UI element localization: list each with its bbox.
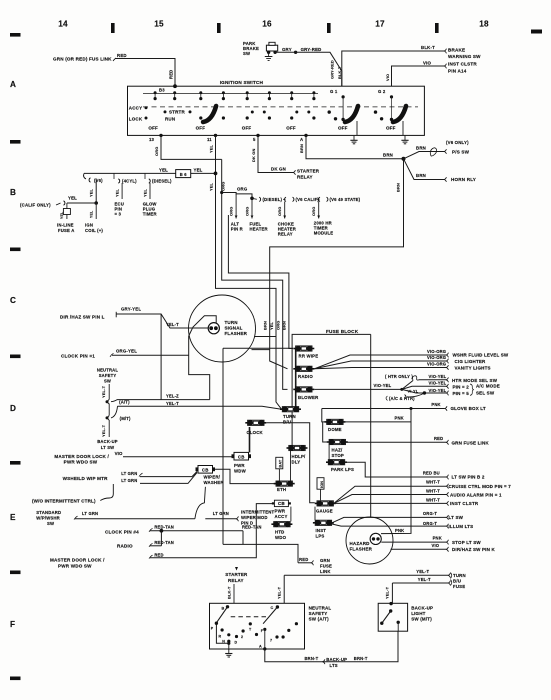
svg-text:OFF: OFF (338, 125, 348, 130)
wire YEL-T down to back-up light sw (391, 583, 393, 603)
svg-text:B/U: B/U (453, 579, 461, 584)
svg-text:INTERMITTENT: INTERMITTENT (241, 510, 275, 515)
svg-text:ORG: ORG (277, 207, 282, 216)
svg-text:C: C (271, 606, 274, 610)
connector pair (V6 49 STATE) (317, 198, 320, 200)
wire ORG branch to diesel connector row (222, 193, 252, 199)
wire ORG from terminal 13 (161, 135, 222, 159)
circuit breaker WIPER/WASHER (198, 466, 213, 474)
svg-text:PNK: PNK (395, 415, 404, 420)
brace pin group (470, 384, 474, 395)
ground below ignition section 6 (404, 136, 406, 141)
svg-text:FUSE: FUSE (320, 564, 332, 569)
svg-text:2: 2 (241, 635, 243, 639)
svg-text:7: 7 (270, 639, 272, 643)
svg-text:HEATER: HEATER (250, 227, 268, 232)
svg-text:GRY: GRY (282, 47, 292, 52)
ignition switch section 2 contacts (199, 91, 202, 94)
svg-text:YEL-T: YEL-T (166, 401, 179, 406)
svg-text:HTD: HTD (275, 529, 284, 534)
wire link turn flasher to bundle lower (252, 349, 270, 351)
hazard flasher element (370, 533, 381, 544)
wire YEL to ECU pin 3 (121, 183, 123, 199)
svg-text:HAZARD: HAZARD (350, 541, 371, 546)
ignition switch section 2 lever (203, 106, 216, 122)
ignition switch section 5 lever (345, 106, 358, 122)
wire VI-YL branch a/c and htr (407, 393, 425, 397)
circuit breaker PWR ACCY (272, 500, 291, 506)
svg-text:YEL: YEL (90, 210, 94, 218)
node blower fan-out (400, 388, 403, 391)
svg-text:ORG: ORG (237, 187, 248, 192)
svg-text:DIR /HAZ SW PIN L: DIR /HAZ SW PIN L (60, 315, 105, 320)
wire branch down from dir/haz line (160, 314, 162, 400)
svg-text:STANDARD: STANDARD (36, 510, 61, 515)
ruler side dashes left (10, 33, 21, 37)
svg-text:RELAY: RELAY (297, 175, 313, 180)
wire link turn flasher to bundle upper (254, 336, 276, 338)
svg-text:VIO-YEL: VIO-YEL (429, 388, 447, 393)
svg-text:PNK: PNK (433, 536, 442, 541)
svg-text:PARK LPS: PARK LPS (331, 467, 354, 472)
wire ORG to choke heater relay (284, 202, 286, 219)
svg-text:18: 18 (479, 20, 489, 29)
wire lever foot section 6 (402, 121, 404, 135)
svg-text:ACCY: ACCY (275, 514, 288, 519)
svg-text:IN-LINE: IN-LINE (57, 223, 74, 228)
in-line fuse A component (66, 203, 68, 209)
svg-text:ORG-YEL: ORG-YEL (116, 349, 137, 354)
wire BRN to horn relay (404, 159, 445, 180)
node pnk junction (410, 407, 413, 410)
connector (V6) on B6 row (84, 173, 86, 179)
neutral safety internal contacts (221, 628, 224, 631)
svg-text:VIO: VIO (432, 543, 440, 548)
svg-text:VIO: VIO (423, 61, 431, 66)
svg-text:LT GRN: LT GRN (213, 511, 229, 516)
wire VIO-ORG outputs from RADIO fuse (314, 355, 446, 369)
svg-text:IGNITION SWITCH: IGNITION SWITCH (220, 80, 264, 85)
neutral safety dashed line (231, 616, 268, 618)
svg-text:STOP: STOP (332, 453, 344, 458)
wire M/T line YEL-T to turn b/u fuse (111, 406, 118, 418)
wire squiggle w/o intermittent (100, 484, 113, 501)
svg-text:PWR: PWR (234, 463, 245, 468)
node fuel heater branch (250, 197, 254, 201)
back-up switch contacts and lever (389, 602, 392, 605)
svg-text:INST CLSTR: INST CLSTR (448, 62, 477, 67)
wire BRN third vertical to fuse block (228, 215, 289, 344)
svg-text:17: 17 (375, 20, 385, 29)
ignition switch dashed line (143, 106, 418, 108)
back-up light switch box (378, 603, 407, 631)
wire BRN bundle4 to RR WIPE fuse (289, 344, 293, 349)
wire YEL-T down to neutral safety C (283, 575, 285, 603)
svg-text:VANITY LIGHTS: VANITY LIGHTS (455, 366, 491, 371)
svg-text:WDO: WDO (275, 535, 287, 540)
svg-text:BLK-T: BLK-T (421, 45, 435, 50)
svg-text:ILLUM LTS: ILLUM LTS (449, 524, 474, 529)
connector (CALIF ONLY) (64, 201, 65, 205)
wire VIO-YEL sel sw pin 5 (402, 389, 446, 393)
wire A/T line YEL-T (111, 400, 117, 402)
wire CLOCK right to GAUGE feed (266, 423, 314, 503)
svg-text:MASTER DOOR LOCK /: MASTER DOOR LOCK / (50, 558, 105, 563)
svg-text:NEUTRAL: NEUTRAL (309, 606, 332, 611)
svg-text:15: 15 (154, 20, 164, 29)
fuse HDLP/DLY (287, 445, 308, 451)
wire VIO hazard to dir/haz sw pin k (391, 548, 447, 550)
svg-text:YEL-T: YEL-T (101, 385, 106, 398)
ignition switch section 4 contacts (290, 91, 293, 94)
svg-text:BRN-T: BRN-T (354, 656, 368, 661)
wire BLK-T to brake warning switch (342, 51, 444, 86)
wire YEL-T neutral safety to A/T connector (108, 384, 110, 400)
svg-text:GRY-RED: GRY-RED (330, 60, 335, 79)
svg-text:ETH: ETH (277, 487, 286, 492)
fuse BLOWER (293, 387, 314, 393)
ground below ignition section 5 (353, 136, 355, 141)
wire dome right to pnk junction (344, 409, 412, 422)
wire HDLP/DLY to ETH link (290, 451, 292, 481)
svg-text:LT SW PIN B 2: LT SW PIN B 2 (452, 475, 485, 480)
svg-text:YEL: YEL (60, 211, 64, 219)
ignition switch section 3 contacts (246, 91, 249, 94)
ground below neutral safety sw (228, 643, 230, 650)
svg-text:(V6 49 STATE): (V6 49 STATE) (330, 197, 361, 202)
svg-text:YEL-T: YEL-T (101, 424, 106, 437)
svg-text:LT SW: LT SW (449, 515, 464, 520)
svg-text:P/S SW: P/S SW (452, 150, 470, 155)
svg-text:ORG: ORG (221, 182, 226, 191)
svg-text:VIO-ORG: VIO-ORG (427, 349, 446, 354)
svg-text:BACK-UP: BACK-UP (97, 439, 118, 444)
wire PNK dome to glove box lt (322, 408, 445, 410)
svg-text:13: 13 (149, 137, 155, 142)
svg-text:ORG-T: ORG-T (423, 511, 438, 516)
svg-text:RED-TAN: RED-TAN (154, 525, 174, 530)
ignition switch section 5 contacts (342, 97, 344, 120)
svg-text:(DIESEL): (DIESEL) (263, 197, 283, 202)
svg-text:MODULE: MODULE (314, 231, 334, 236)
wire ORG bundle3 to BLOWER fuse (283, 344, 288, 389)
wire YEL from V6 connector down to coil junction (95, 179, 97, 204)
svg-text:VIO: VIO (115, 451, 123, 456)
svg-text:ORG: ORG (311, 207, 316, 216)
svg-text:WIPER/: WIPER/ (204, 475, 221, 480)
connector (4CYL) on B6 row (113, 173, 115, 179)
svg-text:CLOCK: CLOCK (247, 430, 264, 435)
svg-text:FLASHER: FLASHER (225, 331, 248, 336)
svg-text:RADIO: RADIO (298, 374, 313, 379)
wire from B lever to ground (216, 623, 228, 644)
svg-text:A/C MODE: A/C MODE (476, 384, 500, 389)
ruler ticks top (111, 23, 115, 33)
svg-text:BACK-UP: BACK-UP (411, 606, 433, 611)
svg-text:VIO-YEL: VIO-YEL (429, 374, 447, 379)
circuit breaker PWR WDW (234, 452, 249, 460)
svg-text:CRUISE CTRL MOD PIN = 7: CRUISE CTRL MOD PIN = 7 (449, 484, 512, 489)
fuse CLOCK (245, 420, 266, 426)
wire PNK hazard to stop lt sw (381, 541, 446, 543)
svg-text:RED: RED (434, 436, 443, 441)
wire YEL to CALIF ONLY connector (67, 202, 96, 204)
wire back-up switch output to bottom edge (397, 622, 399, 631)
svg-text:SAFETY: SAFETY (99, 373, 117, 378)
label box IGN (317, 478, 324, 490)
svg-text:SW (M/T): SW (M/T) (411, 617, 432, 622)
svg-text:PWR: PWR (275, 508, 286, 513)
svg-text:C: C (10, 296, 16, 305)
wire internal contact to terminal A (264, 629, 266, 649)
svg-text:YEL: YEL (269, 321, 274, 330)
svg-text:GRN (OR RED) FUS LINK: GRN (OR RED) FUS LINK (53, 57, 112, 62)
wire neutral safety down to M/T connector (108, 404, 110, 416)
svg-text:(4CYL): (4CYL) (122, 179, 137, 184)
svg-text:B3: B3 (159, 87, 165, 92)
fuse GAUGE (315, 501, 336, 507)
hazard flasher circle (346, 517, 393, 564)
svg-text:RUN: RUN (165, 117, 175, 122)
svg-text:SW (A/T): SW (A/T) (309, 617, 330, 622)
svg-text:VIO-YEL: VIO-YEL (429, 381, 447, 386)
wire bus left side of fuses (283, 349, 296, 408)
fuse RADIO (293, 366, 314, 372)
wire VIO-YEL htr mode sel sw with loop (402, 381, 413, 390)
connector (M/T) (108, 416, 109, 420)
svg-text:YEL-T: YEL-T (416, 569, 429, 574)
svg-text:DK GN: DK GN (271, 167, 286, 172)
neutral safety switch box (210, 603, 305, 649)
fuse PARK LPS (326, 459, 347, 465)
svg-text:OFF: OFF (286, 125, 296, 130)
svg-text:VI-YL: VI-YL (408, 388, 419, 393)
wire RED from fus link to ignition switch B3 (113, 58, 116, 61)
svg-text:GRY-RED: GRY-RED (301, 47, 322, 52)
wire pnk down to hazard flasher (381, 409, 411, 534)
svg-text:YEL: YEL (115, 188, 120, 197)
fuse HTD WDO (271, 521, 292, 527)
svg-text:RED-TAN: RED-TAN (154, 540, 174, 545)
svg-text:CB: CB (238, 454, 245, 459)
wire fuse block right edge down to hazard flasher (370, 334, 372, 517)
ignition terminal A (304, 134, 307, 137)
svg-text:STARTER: STARTER (225, 572, 248, 577)
ignition terminal 5 (256, 134, 259, 137)
wire VIO-YEL a/c mode pin 2 (402, 386, 446, 389)
svg-text:(V6 CALIF): (V6 CALIF) (296, 197, 320, 202)
wire park lps to red bu output (345, 462, 446, 477)
svg-text:BACK-UP: BACK-UP (326, 657, 347, 662)
svg-text:DK GN: DK GN (251, 149, 256, 162)
svg-text:WDW: WDW (234, 469, 247, 474)
svg-text:CLOCK PIN =1: CLOCK PIN =1 (61, 354, 95, 359)
svg-text:YEL-T: YEL-T (166, 322, 179, 327)
connector (DIESEL) on B6 row (144, 173, 146, 179)
svg-text:WHT-T: WHT-T (426, 480, 440, 485)
svg-text:DIR/HAZ SW PIN K: DIR/HAZ SW PIN K (452, 547, 495, 552)
svg-text:B 6: B 6 (180, 172, 187, 177)
svg-text:OFF: OFF (148, 125, 158, 130)
wire flasher element top feed (189, 316, 217, 336)
svg-text:(CALIF ONLY): (CALIF ONLY) (20, 203, 51, 208)
svg-text:G 2: G 2 (378, 89, 386, 94)
svg-text:INST: INST (316, 528, 327, 533)
svg-text:PIN = 2: PIN = 2 (453, 384, 470, 389)
svg-text:VIO-ORG: VIO-ORG (427, 355, 446, 360)
svg-text:LT GRN: LT GRN (121, 478, 137, 483)
svg-text:SEL SW: SEL SW (476, 390, 495, 395)
svg-text:RED: RED (169, 70, 174, 79)
svg-text:NEUTRAL: NEUTRAL (97, 368, 119, 373)
svg-text:SW: SW (243, 51, 250, 56)
wire RED haz/stop to grn fuse link (346, 441, 446, 443)
svg-text:YEL: YEL (159, 168, 168, 173)
svg-text:WARNING SW: WARNING SW (448, 54, 481, 59)
svg-text:PNK: PNK (431, 402, 440, 407)
svg-text:B: B (10, 188, 16, 197)
svg-text:TURN: TURN (453, 573, 466, 578)
svg-text:(V6): (V6) (94, 178, 103, 183)
wire BRN-T neutral safety A to back-up lts (265, 631, 398, 662)
svg-text:WIPER MOD: WIPER MOD (241, 515, 268, 520)
svg-text:B/U: B/U (283, 419, 291, 424)
wire BLK-T starter relay to neutral safety sw (233, 584, 235, 603)
svg-text:A: A (10, 80, 16, 89)
svg-text:YEL: YEL (89, 188, 94, 197)
svg-text:GRN: GRN (320, 558, 330, 563)
svg-text:RELAY: RELAY (228, 578, 244, 583)
svg-text:PIN R: PIN R (231, 227, 243, 232)
turn signal flasher circle (189, 295, 256, 362)
wire GAUGE to INST LPS link (314, 507, 316, 520)
svg-text:ORG: ORG (154, 147, 159, 156)
svg-text:TIMER: TIMER (143, 212, 157, 217)
wire staircase flasher to A/T line (189, 336, 210, 400)
ignition switch internal bus (143, 93, 318, 95)
svg-text:LIGHT: LIGHT (411, 611, 425, 616)
svg-text:RED: RED (299, 557, 308, 562)
wire BRN down right side to fuse block bundle (270, 159, 404, 344)
wire wiper cb to ETH fuse (215, 469, 275, 483)
svg-text:RADIO: RADIO (117, 544, 133, 549)
svg-text:CLOCK PIN #4: CLOCK PIN #4 (105, 530, 139, 535)
wire radio red-tan up to junction (160, 531, 162, 546)
svg-text:= 3: = 3 (115, 212, 122, 217)
svg-text:WHT-T: WHT-T (426, 488, 440, 493)
svg-text:LT SW: LT SW (101, 445, 115, 450)
fuse HAZ/STOP (327, 439, 348, 445)
wire YEL from terminal 11 down (216, 135, 277, 344)
wire YEL-T below M/T to back-up lt sw (108, 420, 110, 437)
wire YEL-T to turn b/u fuse upper (284, 574, 448, 576)
svg-text:BRN: BRN (299, 144, 304, 153)
ignition switch section 1 contacts (154, 91, 157, 94)
label box BAT (276, 457, 283, 469)
svg-text:P: P (211, 627, 214, 631)
svg-text:PIN A14: PIN A14 (448, 69, 467, 74)
svg-text:RR WIPE: RR WIPE (299, 354, 319, 359)
svg-text:FUSE A: FUSE A (58, 228, 75, 233)
svg-text:VIO-YEL: VIO-YEL (374, 383, 392, 388)
svg-text:(W/O INTERMITTENT CTRL): (W/O INTERMITTENT CTRL) (32, 499, 96, 504)
svg-text:A: A (300, 137, 303, 142)
svg-text:YEL: YEL (209, 182, 214, 191)
svg-text:HDLP/: HDLP/ (292, 454, 307, 459)
svg-text:D: D (10, 404, 16, 413)
svg-text:LT GRN: LT GRN (82, 511, 98, 516)
svg-text:MASTER DOOR LOCK /: MASTER DOOR LOCK / (54, 454, 109, 459)
wire ORG to ALT PIN R (235, 194, 237, 219)
wire WHT-T gauge outputs (334, 486, 446, 503)
svg-text:FUSE BLOCK: FUSE BLOCK (326, 329, 359, 334)
svg-text:OFF: OFF (242, 125, 252, 130)
turn signal flasher element (208, 323, 219, 334)
node B6 row to YEL vertical (214, 172, 218, 176)
wire VIO to inst clstr pin A14 (392, 66, 445, 86)
wire junction row to grn fuse link (223, 544, 298, 562)
svg-text:FUSE: FUSE (453, 584, 465, 589)
ignition switch section 6 contacts (391, 97, 393, 120)
svg-text:BRN: BRN (282, 321, 287, 330)
node YEL junction above ign coil (94, 201, 98, 205)
wire YEL-T to turn b/u fuse lower (392, 582, 448, 584)
svg-text:R: R (219, 635, 222, 639)
svg-text:BLK-T: BLK-T (227, 586, 232, 599)
node red-tan junction (160, 529, 164, 533)
svg-text:YEL: YEL (143, 188, 148, 197)
svg-text:YEL-T: YEL-T (277, 586, 282, 599)
wire lever foot section 5 (356, 121, 358, 135)
fuse B6 box (176, 170, 191, 178)
wire haz to park lps left link (328, 445, 330, 460)
wire rr wipe feed from wiper cb (222, 348, 224, 544)
svg-text:OFF: OFF (386, 125, 396, 130)
svg-text:BRN: BRN (263, 321, 268, 330)
svg-text:HORN RLY: HORN RLY (451, 177, 476, 182)
svg-text:SW: SW (47, 521, 54, 526)
wire ORG to fuel heater (251, 198, 253, 218)
svg-text:VIO-ORG: VIO-ORG (427, 362, 446, 367)
svg-text:COIL (+): COIL (+) (85, 228, 103, 233)
svg-text:STRTR: STRTR (169, 110, 185, 115)
wire IGN to GAUGE (320, 489, 322, 500)
wire ORG-T inst lps outputs (332, 517, 446, 522)
svg-text:PIN = 5: PIN = 5 (453, 391, 470, 396)
wire ORG to 2000 HR timer module (318, 202, 320, 219)
node a/c htr join (423, 391, 426, 394)
svg-text:BRAKE: BRAKE (448, 48, 465, 53)
svg-text:SAFETY: SAFETY (309, 611, 328, 616)
svg-text:GRN FUSE LINK: GRN FUSE LINK (452, 440, 490, 445)
wire red-tan to grn fuse link mid (242, 531, 244, 545)
svg-text:SIGNAL: SIGNAL (225, 326, 243, 331)
fuse DOME (324, 419, 345, 425)
svg-text:GRY-YEL: GRY-YEL (121, 307, 141, 312)
svg-text:E: E (10, 513, 16, 522)
svg-text:WSHEILD WIP MTR: WSHEILD WIP MTR (63, 476, 108, 481)
svg-text:LPS: LPS (316, 533, 325, 538)
svg-text:ORG-T: ORG-T (423, 521, 438, 526)
svg-text:HTR MODE SEL SW: HTR MODE SEL SW (452, 378, 498, 383)
ruler dash right (531, 30, 542, 34)
svg-text:BLK-T: BLK-T (337, 66, 342, 79)
svg-text:LTS: LTS (330, 663, 338, 668)
svg-text:OFF: OFF (196, 125, 206, 130)
svg-text:LT GRN: LT GRN (121, 471, 137, 476)
ground below park brake switch (268, 52, 270, 56)
svg-text:WASHER: WASHER (204, 480, 225, 485)
